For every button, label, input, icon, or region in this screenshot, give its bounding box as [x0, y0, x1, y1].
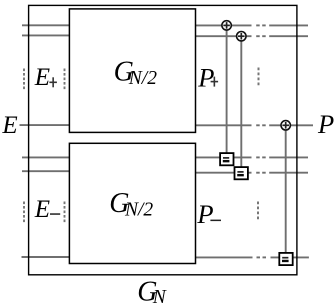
wire right output 1 — [196, 24, 309, 26]
adder node 2 (circled plus) — [237, 32, 246, 41]
svg-text:N/2: N/2 — [124, 200, 153, 221]
wire right output 5 — [196, 172, 309, 174]
wire vertical from adder 2 — [240, 41, 242, 167]
subtract node 3 (boxed minus) — [279, 253, 292, 265]
dotted ellipsis upper (between P+ and border) — [258, 68, 260, 88]
wire right output 2 — [196, 35, 309, 37]
dotted separator right of E- — [64, 202, 66, 224]
block G_N/2 upper — [69, 9, 195, 132]
wire E input — [20, 124, 70, 126]
subtract node 1 (boxed minus) — [220, 153, 233, 165]
svg-text:P: P — [196, 199, 213, 229]
subtract node 2 (boxed minus) — [235, 167, 248, 179]
wire left input 1 — [22, 24, 70, 26]
svg-text:N: N — [152, 287, 167, 307]
wire right output 6 — [196, 256, 309, 258]
dotted separator left of E+ — [23, 69, 25, 91]
adder node 3 (circled plus) — [281, 121, 290, 130]
dotted separator left of E- — [23, 202, 25, 224]
wire left input 6 — [22, 256, 70, 258]
wire left input 5 — [22, 170, 70, 172]
wire right output 4 — [196, 156, 309, 158]
svg-text:E: E — [1, 112, 17, 139]
wire vertical from adder 3 — [285, 130, 287, 254]
svg-text:E: E — [34, 196, 50, 223]
wire left input 2 — [22, 34, 70, 36]
wire vertical from adder 1 — [226, 30, 228, 153]
wire P output — [196, 124, 314, 126]
svg-text:P: P — [317, 109, 334, 139]
svg-text:P: P — [197, 63, 214, 93]
svg-text:E: E — [34, 64, 50, 91]
adder node 1 (circled plus) — [222, 21, 231, 30]
outer box G_N — [29, 5, 297, 274]
dotted separator right of E+ — [64, 69, 66, 91]
block G_N/2 lower — [69, 143, 195, 263]
wire left input 4 — [22, 156, 70, 158]
svg-text:N/2: N/2 — [128, 68, 157, 89]
dotted ellipsis lower (between P- and border) — [257, 202, 259, 222]
